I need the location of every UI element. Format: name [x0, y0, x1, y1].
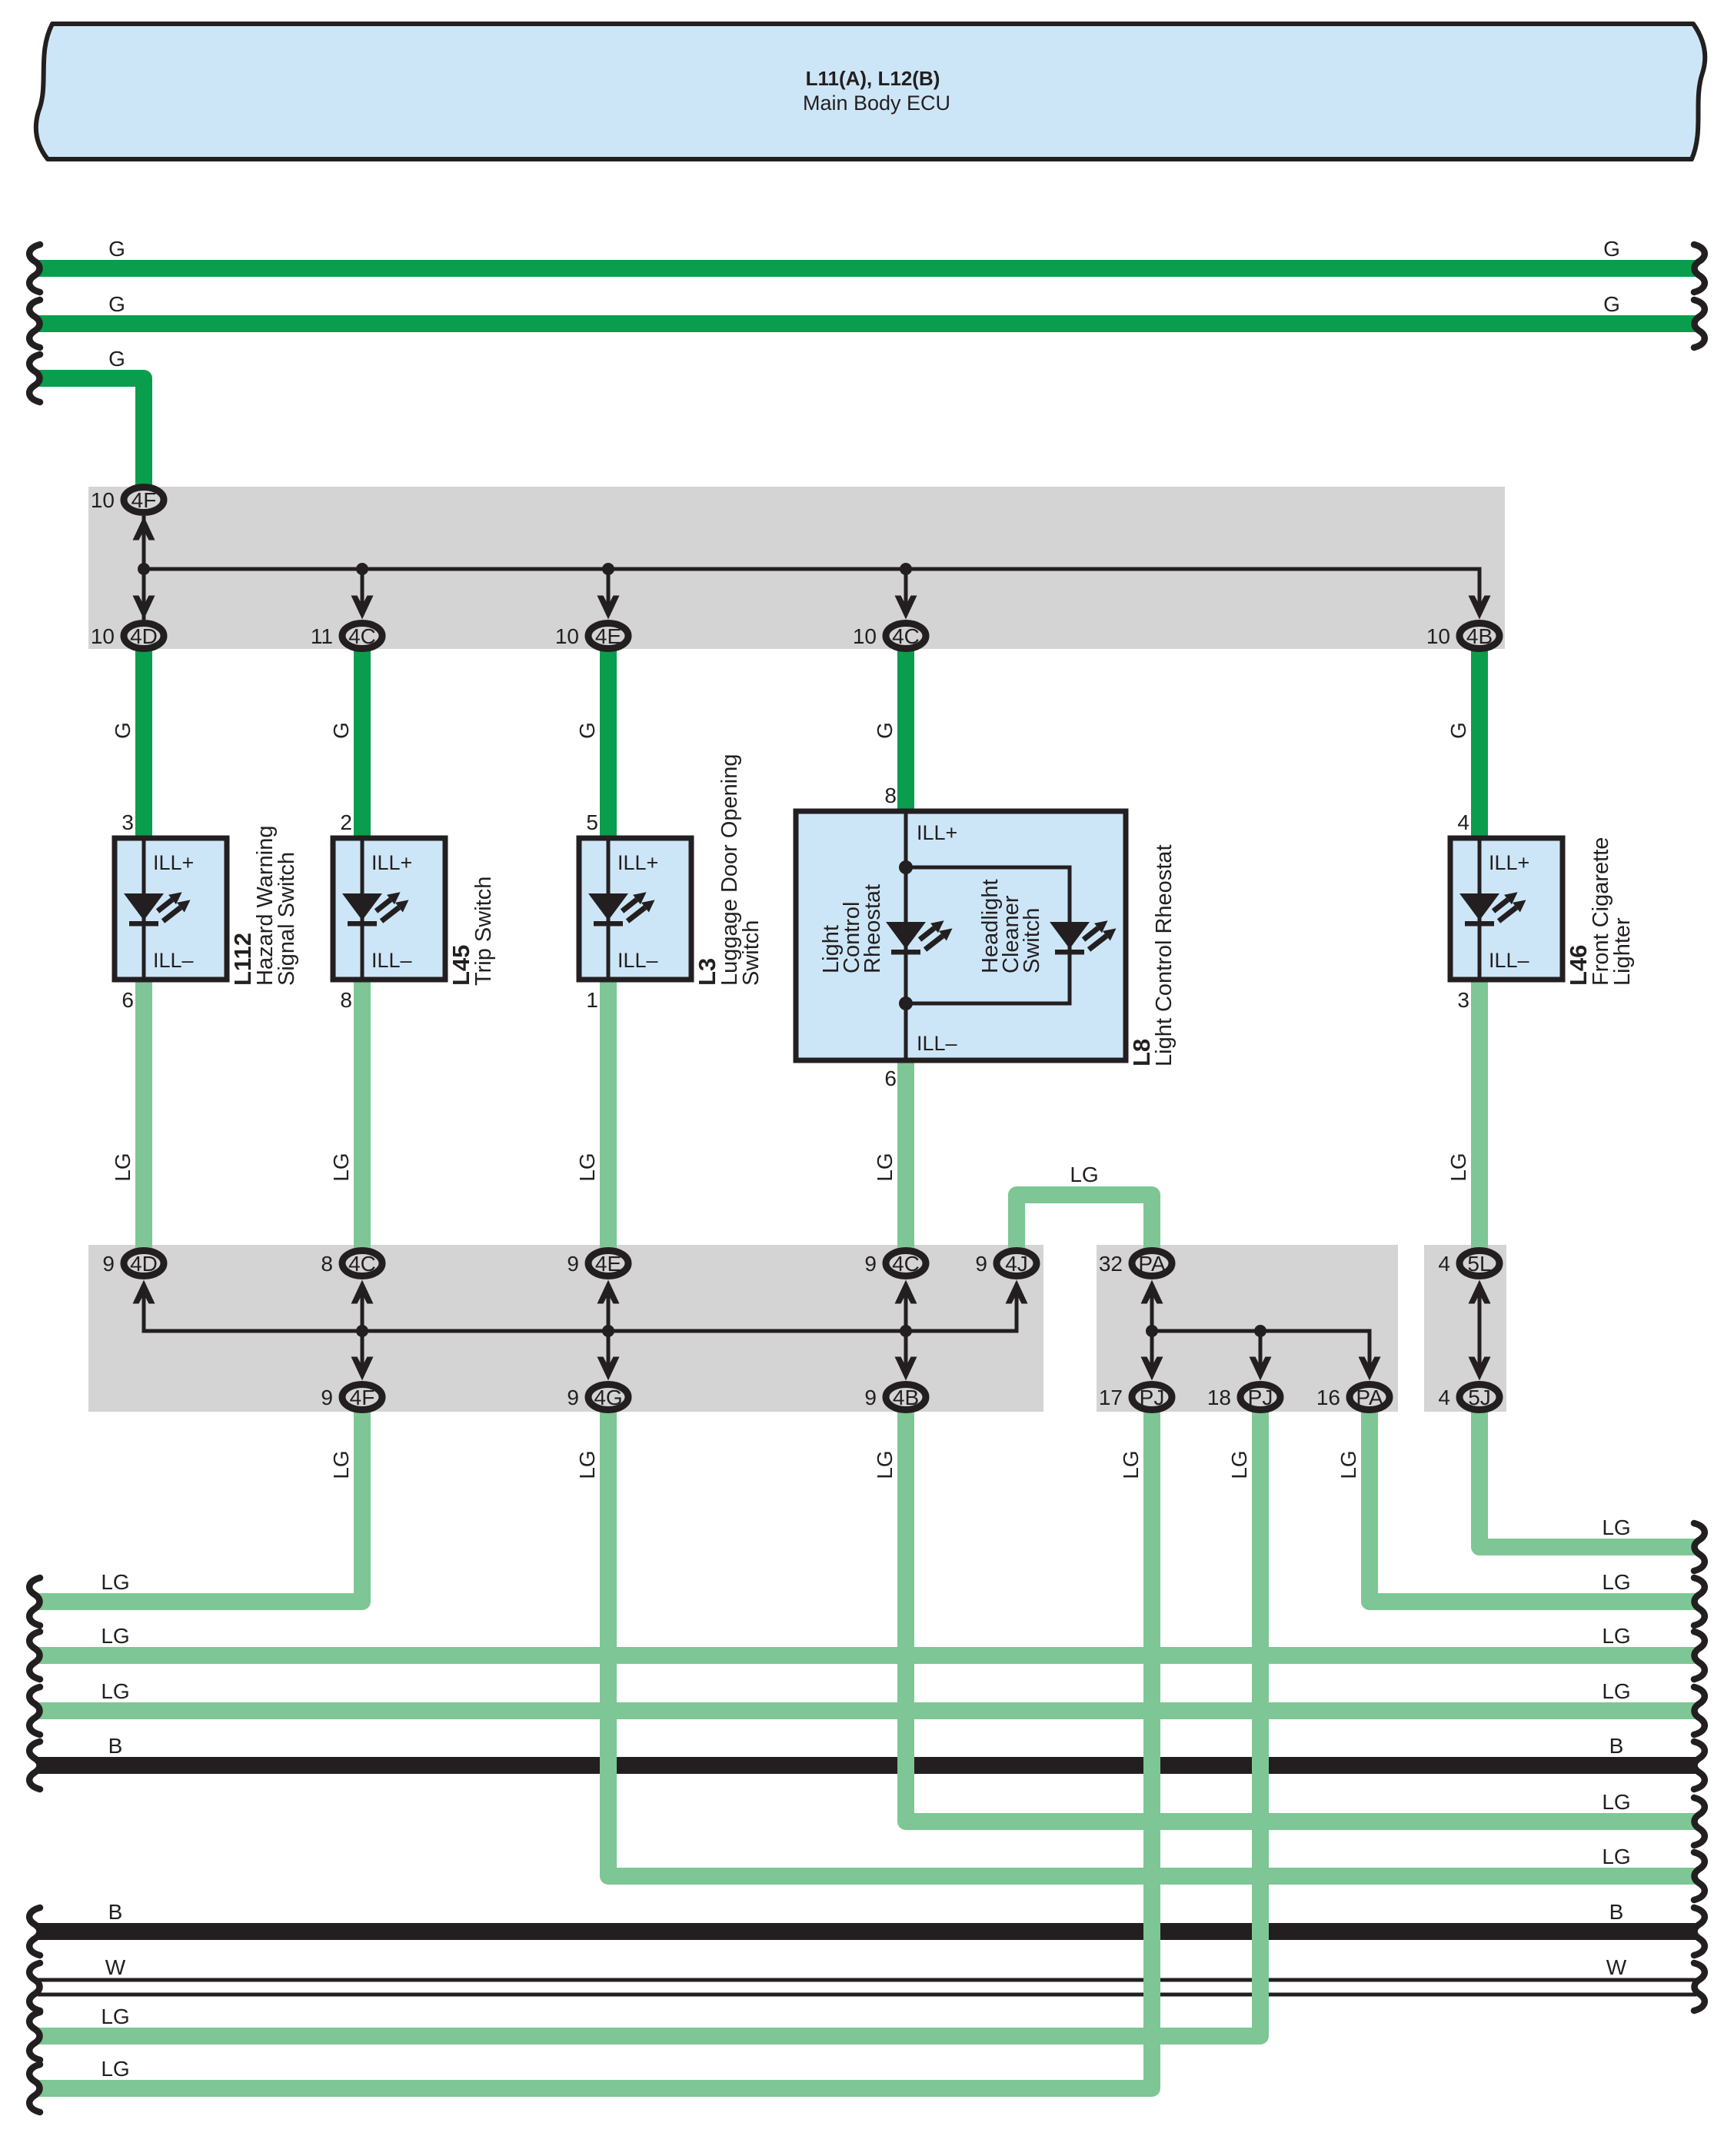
svg-text:PA: PA: [1138, 1252, 1166, 1276]
svg-text:ILL–: ILL–: [153, 949, 194, 972]
svg-text:17: 17: [1099, 1386, 1123, 1409]
svg-text:ILL+: ILL+: [371, 851, 412, 874]
svg-text:32: 32: [1099, 1252, 1123, 1276]
svg-text:10: 10: [555, 624, 579, 648]
svg-text:8: 8: [340, 988, 352, 1012]
svg-text:L112: L112: [229, 933, 256, 986]
svg-text:4: 4: [1457, 810, 1469, 834]
svg-text:Signal Switch: Signal Switch: [275, 852, 299, 986]
svg-text:LG: LG: [1227, 1450, 1251, 1479]
svg-text:LG: LG: [873, 1153, 897, 1181]
svg-text:LG: LG: [873, 1450, 897, 1479]
svg-text:LG: LG: [101, 1624, 129, 1648]
svg-text:LG: LG: [575, 1153, 599, 1181]
svg-text:Lighter: Lighter: [1610, 917, 1635, 986]
svg-text:4E: 4E: [595, 624, 621, 648]
svg-text:LG: LG: [1070, 1163, 1098, 1186]
svg-text:LG: LG: [1602, 1570, 1630, 1594]
svg-text:ILL+: ILL+: [153, 851, 194, 874]
svg-text:3: 3: [121, 810, 134, 834]
svg-text:LG: LG: [101, 2005, 129, 2028]
svg-text:Switch: Switch: [1020, 908, 1044, 973]
svg-text:LG: LG: [575, 1450, 599, 1479]
svg-text:Rheostat: Rheostat: [860, 884, 885, 973]
svg-text:4G: 4G: [594, 1386, 622, 1409]
svg-text:4C: 4C: [348, 624, 376, 648]
svg-text:9: 9: [567, 1386, 579, 1409]
svg-text:Light Control Rheostat: Light Control Rheostat: [1152, 844, 1177, 1066]
svg-text:LG: LG: [101, 2057, 129, 2081]
svg-text:W: W: [1606, 1955, 1627, 1979]
svg-text:ILL–: ILL–: [1489, 949, 1529, 972]
svg-text:4D: 4D: [130, 624, 158, 648]
svg-text:4E: 4E: [595, 1252, 621, 1276]
svg-text:LG: LG: [1602, 1516, 1630, 1539]
svg-text:4F: 4F: [350, 1386, 375, 1409]
svg-text:4C: 4C: [348, 1252, 376, 1276]
svg-text:10: 10: [1426, 624, 1450, 648]
svg-text:G: G: [108, 237, 125, 261]
svg-text:PA: PA: [1356, 1386, 1383, 1409]
svg-text:L46: L46: [1565, 945, 1592, 986]
svg-text:LG: LG: [101, 1679, 129, 1703]
svg-text:B: B: [1609, 1900, 1624, 1924]
svg-text:3: 3: [1457, 988, 1469, 1012]
svg-text:LG: LG: [1446, 1153, 1470, 1181]
svg-text:Main Body ECU: Main Body ECU: [803, 91, 950, 115]
svg-text:G: G: [329, 722, 353, 739]
svg-text:G: G: [1603, 292, 1620, 316]
svg-text:ILL–: ILL–: [617, 949, 658, 972]
svg-text:LG: LG: [1336, 1450, 1360, 1479]
svg-text:18: 18: [1207, 1386, 1231, 1409]
svg-text:G: G: [108, 292, 125, 316]
svg-text:ILL+: ILL+: [617, 851, 658, 874]
svg-text:G: G: [575, 722, 599, 739]
svg-text:PJ: PJ: [1248, 1386, 1273, 1409]
svg-text:L45: L45: [448, 945, 474, 986]
svg-text:ILL–: ILL–: [371, 949, 412, 972]
svg-text:LG: LG: [1602, 1845, 1630, 1868]
svg-text:8: 8: [884, 784, 897, 807]
svg-text:Switch: Switch: [739, 920, 764, 986]
svg-text:4D: 4D: [130, 1252, 158, 1276]
svg-text:5J: 5J: [1468, 1386, 1491, 1409]
svg-text:4J: 4J: [1005, 1252, 1028, 1276]
svg-text:10: 10: [853, 624, 877, 648]
svg-text:W: W: [105, 1955, 126, 1979]
svg-text:4C: 4C: [892, 624, 920, 648]
svg-text:Trip Switch: Trip Switch: [471, 877, 496, 986]
svg-text:ILL–: ILL–: [917, 1032, 957, 1055]
svg-text:G: G: [111, 722, 135, 739]
svg-text:4: 4: [1438, 1386, 1450, 1409]
svg-text:G: G: [873, 722, 897, 739]
svg-text:11: 11: [311, 624, 333, 648]
svg-text:4F: 4F: [131, 488, 157, 512]
svg-text:L11(A), L12(B): L11(A), L12(B): [806, 67, 940, 90]
svg-text:10: 10: [91, 624, 115, 648]
svg-text:LG: LG: [1119, 1450, 1143, 1479]
svg-text:PJ: PJ: [1140, 1386, 1165, 1409]
svg-text:5: 5: [586, 810, 598, 834]
svg-text:G: G: [108, 347, 125, 371]
svg-text:9: 9: [864, 1252, 877, 1276]
svg-text:1: 1: [586, 988, 598, 1012]
svg-text:LG: LG: [111, 1153, 135, 1181]
svg-text:8: 8: [321, 1252, 333, 1276]
svg-text:9: 9: [975, 1252, 987, 1276]
svg-text:2: 2: [340, 810, 352, 834]
svg-text:9: 9: [321, 1386, 333, 1409]
svg-text:G: G: [1603, 237, 1620, 261]
svg-text:ILL+: ILL+: [1489, 851, 1529, 874]
svg-text:ILL+: ILL+: [917, 821, 957, 844]
svg-text:4C: 4C: [892, 1252, 920, 1276]
svg-text:LG: LG: [329, 1153, 353, 1181]
svg-text:9: 9: [102, 1252, 115, 1276]
svg-text:16: 16: [1316, 1386, 1340, 1409]
svg-text:6: 6: [121, 988, 134, 1012]
svg-text:B: B: [108, 1734, 123, 1758]
svg-text:10: 10: [91, 488, 115, 512]
svg-text:4: 4: [1438, 1252, 1450, 1276]
svg-text:LG: LG: [1602, 1624, 1630, 1648]
svg-text:LG: LG: [1602, 1790, 1630, 1814]
svg-text:G: G: [1446, 722, 1470, 739]
svg-text:B: B: [108, 1900, 123, 1924]
svg-text:B: B: [1609, 1734, 1624, 1758]
svg-text:9: 9: [864, 1386, 877, 1409]
svg-text:LG: LG: [101, 1570, 129, 1594]
svg-text:4B: 4B: [893, 1386, 919, 1409]
svg-text:9: 9: [567, 1252, 579, 1276]
svg-text:L3: L3: [694, 958, 721, 986]
svg-text:L8: L8: [1128, 1039, 1155, 1066]
svg-text:4B: 4B: [1466, 624, 1493, 648]
svg-text:LG: LG: [329, 1450, 353, 1479]
svg-text:LG: LG: [1602, 1679, 1630, 1703]
svg-text:5L: 5L: [1467, 1252, 1491, 1276]
svg-text:6: 6: [884, 1066, 897, 1090]
